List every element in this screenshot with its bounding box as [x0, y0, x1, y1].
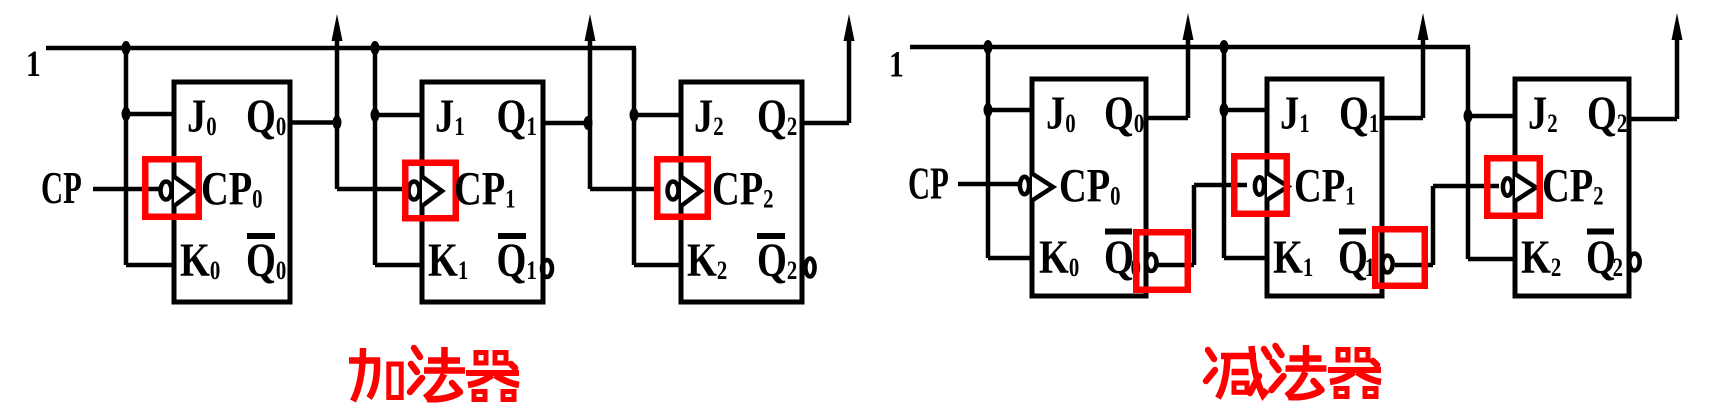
- caption 减法器 char 器: [1328, 350, 1381, 397]
- clock triangle FFR0: [1032, 174, 1053, 201]
- net label 1 (logic high): [26, 44, 41, 85]
- svg-text:J1: J1: [1280, 87, 1310, 140]
- svg-text:Q2: Q2: [757, 234, 797, 287]
- wire: Q2 vertical riser to arrow right: [1675, 40, 1680, 119]
- caption 减法器 char 法: [1272, 345, 1327, 397]
- inversion bubble on Q1-bar output right: [1382, 256, 1392, 273]
- pin label Q1-bar (overbar): [498, 233, 526, 239]
- svg-text:J2: J2: [694, 90, 724, 143]
- flip-flop FF0 box: [174, 82, 290, 302]
- pin label Q0-bar text: [246, 234, 286, 287]
- pin label Q1 right: [1339, 87, 1379, 140]
- svg-text:Q2: Q2: [757, 90, 797, 143]
- wire: Q1 output right: [1382, 116, 1423, 121]
- svg-text:Q1: Q1: [497, 90, 537, 143]
- svg-text:1: 1: [889, 44, 904, 85]
- svg-text:J1: J1: [435, 90, 465, 143]
- wire: vertical branch at x=375 feeding J1/K1: [373, 48, 378, 265]
- pin label K1 right: [1273, 231, 1313, 284]
- svg-text:Q0: Q0: [1104, 87, 1144, 140]
- pin label Q0 right: [1104, 87, 1144, 140]
- node: junction J2 branch right: [1464, 109, 1473, 123]
- clock triangle FF1: [422, 177, 442, 207]
- node: junction top rail / branch x=375: [371, 41, 380, 55]
- clock bubble FFR1: [1255, 177, 1264, 194]
- wire: CP input to FFR0: [958, 182, 1020, 187]
- flip-flop FFR2 box: [1515, 79, 1629, 296]
- svg-text:K0: K0: [1039, 231, 1079, 284]
- label CP (clock input, right): [908, 160, 949, 209]
- pin label CP1: [454, 163, 516, 216]
- node: junction J1 branch right: [1220, 103, 1229, 117]
- wire: J2 input: [634, 113, 683, 118]
- clock bubble FF2: [668, 182, 679, 200]
- wire: Q0 output right: [1146, 116, 1188, 121]
- arrowhead Q0 output up: [332, 14, 343, 41]
- node: Q0 junction: [333, 116, 342, 130]
- pin label Q0-bar (overbar): [247, 233, 275, 239]
- svg-text:Q1: Q1: [1339, 87, 1379, 140]
- pin label J0: [187, 90, 217, 143]
- wire: J1 input: [375, 113, 424, 118]
- pin label Q1-bar right text: [1338, 231, 1375, 284]
- svg-text:J0: J0: [187, 90, 217, 143]
- pin label CP0 right: [1059, 160, 1121, 213]
- node: junction top rail / branch x=126: [122, 41, 131, 55]
- pin label Q2 right: [1587, 87, 1627, 140]
- wire: Q1 vertical riser to arrow right: [1421, 40, 1426, 118]
- node: junction J0 branch: [122, 107, 131, 121]
- red highlight box on FFR1 clock: [1234, 156, 1287, 214]
- pin label CP0: [201, 163, 263, 216]
- clock bubble FF0: [161, 182, 172, 200]
- pin label J0 right: [1046, 87, 1076, 140]
- pin label K0: [180, 234, 220, 287]
- arrowhead Q1 output up right: [1418, 13, 1429, 40]
- inversion bubble on Q2-bar output right: [1629, 254, 1639, 271]
- arrowhead Q1 output up: [585, 14, 596, 41]
- clock triangle FFR1: [1267, 173, 1288, 200]
- pin label Q1: [497, 90, 537, 143]
- wire: Q0-bar to riser: [1157, 263, 1194, 268]
- wire: Q0 vertical riser to arrow right: [1186, 40, 1191, 118]
- wire: J1 input right: [1224, 108, 1269, 113]
- caption 加法器 char 法: [410, 347, 465, 399]
- clock bubble FF1: [409, 182, 420, 200]
- svg-text:K2: K2: [1521, 231, 1561, 284]
- pin label Q2-bar (overbar): [757, 233, 785, 239]
- caption 减法器 char 减: [1206, 346, 1269, 398]
- wire: K2 input right: [1468, 257, 1517, 262]
- pin label Q2-bar right text: [1586, 231, 1623, 284]
- clock bubble FFR0: [1020, 177, 1029, 194]
- wire: CP2 feed: [590, 187, 656, 192]
- wire: J0 input: [126, 112, 176, 117]
- clock triangle FF0: [174, 177, 194, 207]
- red highlight box on Q0-bar bubble: [1136, 232, 1188, 290]
- node: junction top rail / branch x=988: [984, 40, 993, 54]
- node: Q1 junction: [584, 116, 593, 130]
- pin label Q0-bar right (overbar): [1105, 229, 1132, 235]
- svg-text:CP1: CP1: [454, 163, 516, 216]
- wire: Q0 vertical riser to arrow and down to CP1: [335, 41, 340, 189]
- svg-text:CP2: CP2: [1542, 160, 1604, 213]
- wire: Q1 output: [543, 121, 590, 126]
- pin label Q1-bar text: [497, 234, 537, 287]
- red highlight box on FF0 clock: [145, 159, 199, 217]
- arrowhead Q0 output up right: [1183, 13, 1194, 40]
- pin label K2: [687, 234, 727, 287]
- svg-text:CP1: CP1: [1294, 160, 1356, 213]
- svg-text:Q2: Q2: [1586, 231, 1623, 284]
- svg-text:J2: J2: [1528, 87, 1558, 140]
- flip-flop FF2 box: [681, 82, 802, 302]
- pin label K0 right: [1039, 231, 1079, 284]
- flip-flop FFR1 box: [1267, 79, 1382, 296]
- red highlight box on Q1-bar bubble: [1375, 229, 1425, 286]
- pin label K2 right: [1521, 231, 1561, 284]
- inversion bubble on Q2-bar output: [805, 259, 814, 277]
- svg-text:CP2: CP2: [712, 163, 774, 216]
- pin label Q2-bar right (overbar): [1587, 229, 1614, 235]
- svg-text:K2: K2: [687, 234, 727, 287]
- pin label Q2: [757, 90, 797, 143]
- net label 1 (logic high, right): [889, 44, 904, 85]
- caption 加法器 char 器: [466, 353, 519, 400]
- label CP (clock input, left): [41, 164, 82, 213]
- flip-flop FFR0 box: [1032, 79, 1146, 296]
- node: junction J2 branch: [630, 108, 639, 122]
- wire: Q1 vertical riser to arrow and down to CP2: [588, 41, 593, 189]
- pin label CP2 right: [1542, 160, 1604, 213]
- svg-text:1: 1: [26, 44, 41, 85]
- wire: top rail from "1" to FF2 drop: [46, 46, 636, 51]
- pin label Q0-bar right text: [1104, 231, 1141, 284]
- wire: Q0 output: [290, 120, 337, 125]
- wire: J0 input right: [988, 108, 1034, 113]
- wire: top rail right circuit: [910, 45, 1470, 50]
- svg-text:K1: K1: [428, 234, 468, 287]
- svg-text:K0: K0: [180, 234, 220, 287]
- pin label J1 right: [1280, 87, 1310, 140]
- red highlight box on FF1 clock: [405, 163, 456, 219]
- wire: Q1-bar riser up to CP2 level: [1431, 186, 1436, 265]
- node: junction top rail / branch x=1224: [1220, 40, 1229, 54]
- wire: K0 input: [126, 263, 176, 268]
- pin label CP1 right: [1294, 160, 1356, 213]
- caption 加法器 char 加: [349, 348, 401, 401]
- pin label K1: [428, 234, 468, 287]
- wire: J2 input right: [1468, 114, 1517, 119]
- clock bubble FFR2: [1503, 178, 1512, 195]
- wire: Q1-bar to riser: [1395, 263, 1433, 268]
- svg-text:CP: CP: [908, 160, 949, 209]
- wire: Q2 vertical riser to arrow: [847, 41, 852, 123]
- node: junction J0 branch right: [984, 103, 993, 117]
- wire: CP2 feed right: [1433, 184, 1499, 189]
- inversion bubble on Q1-bar output: [542, 260, 552, 277]
- node: junction J1 branch: [371, 108, 380, 122]
- wire: top rail drop to J2/K2 right: [1466, 47, 1471, 259]
- svg-text:Q1: Q1: [1338, 231, 1375, 284]
- svg-text:Q0: Q0: [246, 90, 286, 143]
- pin label CP2: [712, 163, 774, 216]
- wire: Q0-bar riser up to CP1 level: [1192, 185, 1197, 265]
- pin label J1: [435, 90, 465, 143]
- arrowhead Q2 output up right: [1672, 13, 1683, 40]
- wire: CP1 feed right: [1194, 183, 1247, 188]
- svg-text:J0: J0: [1046, 87, 1076, 140]
- wire: CP input to FF0: [93, 187, 159, 192]
- svg-text:K1: K1: [1273, 231, 1313, 284]
- wire: K2 input: [634, 263, 683, 268]
- clock triangle FF2: [681, 177, 701, 207]
- wire: CP1 feed: [337, 187, 405, 192]
- wire: Q2 output: [802, 121, 849, 126]
- pin label J2 right: [1528, 87, 1558, 140]
- wire: K1 input: [375, 263, 424, 268]
- svg-text:CP0: CP0: [201, 163, 263, 216]
- pin label Q2-bar text: [757, 234, 797, 287]
- svg-text:Q1: Q1: [497, 234, 537, 287]
- red highlight box on FFR2 clock: [1487, 158, 1540, 216]
- wire: top rail drop to J2/K2 at x=634: [632, 48, 637, 265]
- wire: vertical branch at x=1224 feeding J1/K1: [1222, 47, 1227, 258]
- wire: vertical branch at x=988 feeding J0/K0: [986, 47, 991, 258]
- pin label J2: [694, 90, 724, 143]
- inversion bubble on Q0-bar output right: [1146, 254, 1156, 271]
- svg-text:CP: CP: [41, 164, 82, 213]
- svg-text:Q2: Q2: [1587, 87, 1627, 140]
- pin label Q1-bar right (overbar): [1339, 229, 1366, 235]
- svg-text:CP0: CP0: [1059, 160, 1121, 213]
- red highlight box on FF2 clock: [657, 159, 708, 217]
- clock triangle FFR2: [1515, 174, 1536, 201]
- wire: K0 input right: [988, 256, 1034, 261]
- wire: Q2 output right: [1629, 117, 1677, 122]
- wire: K1 input right: [1224, 256, 1269, 261]
- pin label Q0: [246, 90, 286, 143]
- arrowhead Q2 output up: [844, 14, 855, 41]
- svg-text:Q0: Q0: [246, 234, 286, 287]
- flip-flop FF1 box: [422, 82, 543, 302]
- wire: vertical branch at x=126 feeding J0/K0: [124, 48, 129, 265]
